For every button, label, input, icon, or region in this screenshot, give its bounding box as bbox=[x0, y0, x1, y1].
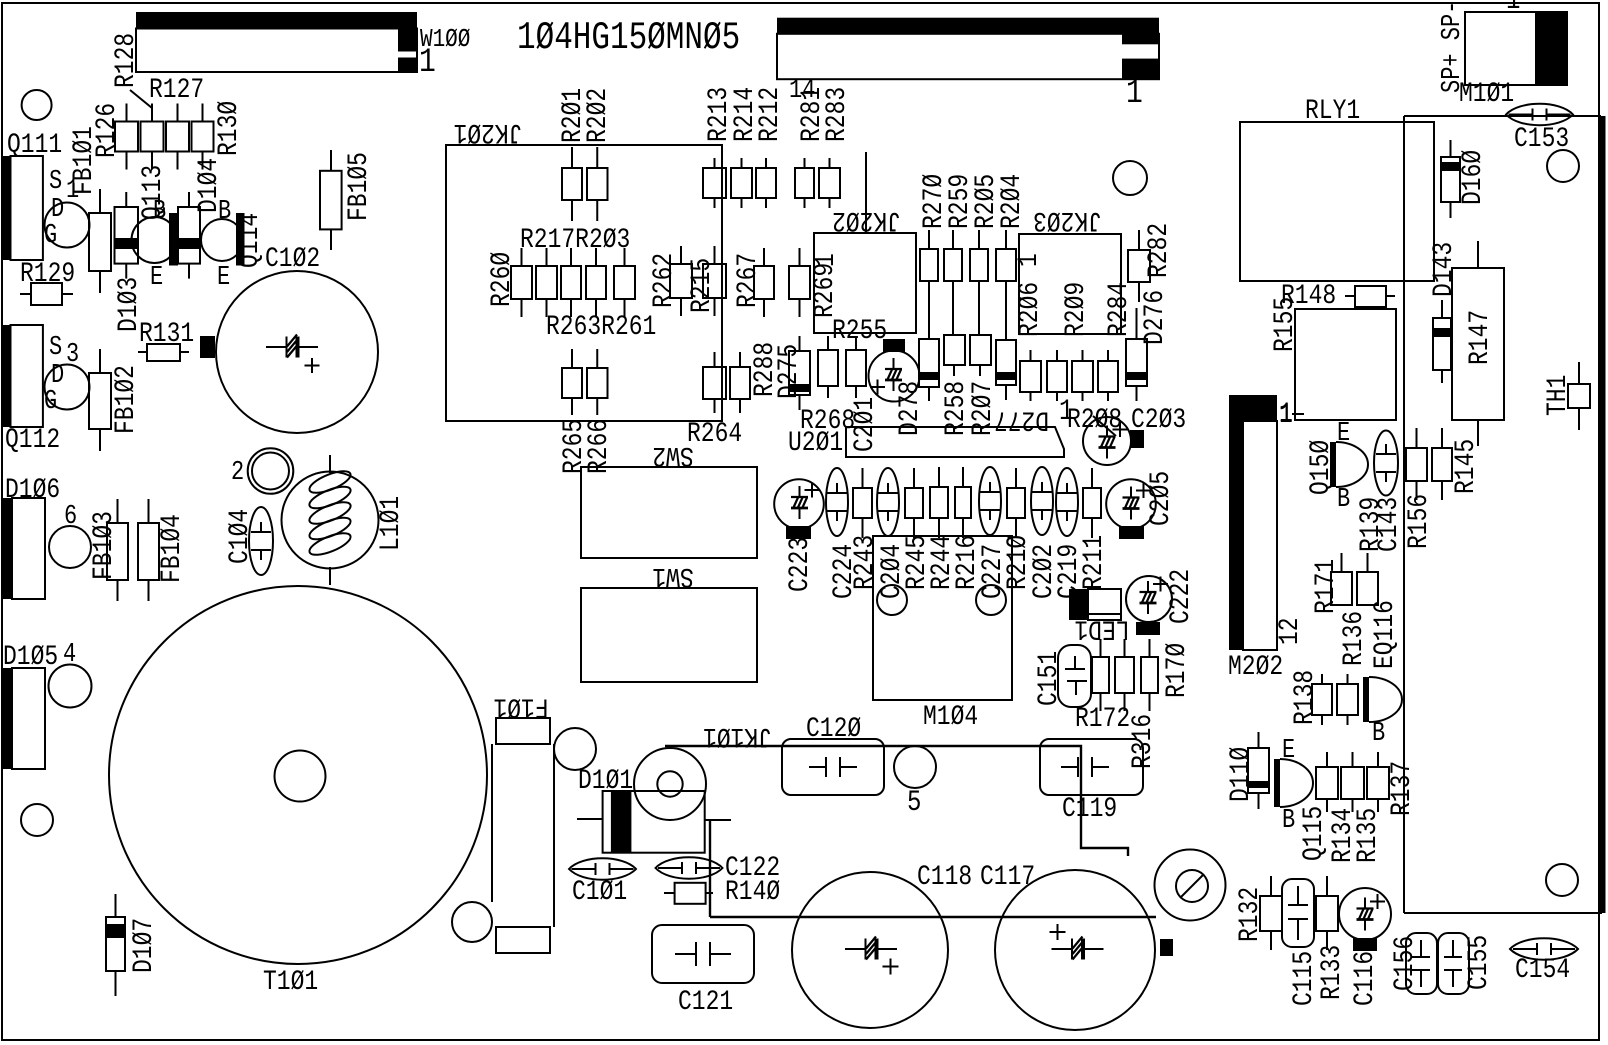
resistor R262 bbox=[670, 264, 692, 298]
svg-text:C222: C222 bbox=[1165, 569, 1197, 624]
resistor R216 bbox=[955, 487, 971, 518]
svg-text:R284: R284 bbox=[1103, 282, 1135, 337]
ferrite bead FB104 bbox=[138, 523, 159, 580]
fuse F101 bbox=[493, 691, 548, 723]
resistor R130 bbox=[192, 122, 214, 152]
svg-text:C1Ø2: C1Ø2 bbox=[265, 243, 320, 275]
svg-text:JK2Ø1: JK2Ø1 bbox=[454, 116, 523, 148]
svg-text:G: G bbox=[44, 221, 57, 251]
shield box right bbox=[1404, 115, 1601, 117]
capacitor C119 bbox=[1040, 739, 1143, 795]
resistor R245 bbox=[905, 488, 923, 518]
svg-text:D1Ø7: D1Ø7 bbox=[128, 918, 160, 973]
svg-text:R2Ø9: R2Ø9 bbox=[1060, 282, 1092, 337]
svg-text:R282: R282 bbox=[1143, 223, 1175, 278]
svg-text:C153: C153 bbox=[1514, 123, 1569, 155]
resistor R214 bbox=[731, 168, 752, 198]
svg-text:R13Ø: R13Ø bbox=[213, 101, 245, 156]
svg-text:Q15Ø: Q15Ø bbox=[1305, 440, 1337, 495]
svg-text:4: 4 bbox=[63, 640, 76, 670]
resistor bottom right b bbox=[730, 367, 750, 399]
diode D276 bbox=[1126, 339, 1147, 386]
capacitor C104 bbox=[249, 507, 273, 575]
resistor R268 box a bbox=[818, 350, 838, 386]
resistor R145 bbox=[1432, 448, 1452, 481]
fuse post circle a bbox=[554, 728, 596, 770]
svg-text:M1Ø1: M1Ø1 bbox=[1459, 78, 1514, 110]
ferrite bead FB105 bbox=[320, 171, 342, 230]
IC U201 bbox=[846, 427, 1064, 457]
resistor R147 bbox=[1452, 268, 1504, 420]
svg-text:6: 6 bbox=[64, 502, 77, 532]
svg-text:C151: C151 bbox=[1033, 651, 1065, 706]
relay RLY1 bbox=[1240, 122, 1434, 281]
connector JK201 bbox=[446, 145, 722, 421]
resistor R201 bbox=[562, 168, 582, 200]
resistor R207 bbox=[970, 335, 991, 365]
svg-text:FB1Ø4: FB1Ø4 bbox=[156, 514, 188, 583]
connector J200 top middle bbox=[777, 18, 1159, 34]
resistor row mid 3 bbox=[561, 266, 581, 299]
svg-text:R269: R269 bbox=[809, 263, 841, 318]
resistor R134 bbox=[1316, 767, 1338, 799]
wire to JK202 bbox=[865, 152, 867, 233]
ferrite bead FB102 bbox=[89, 373, 111, 429]
hole near C153 bbox=[1547, 150, 1579, 182]
svg-text:Q112: Q112 bbox=[5, 424, 60, 456]
svg-text:R17Ø: R17Ø bbox=[1161, 643, 1193, 698]
svg-text:R136: R136 bbox=[1338, 611, 1370, 666]
capacitor C115 bbox=[1282, 879, 1314, 947]
svg-text:R211: R211 bbox=[1078, 535, 1110, 590]
diode D278 bbox=[919, 339, 939, 387]
svg-text:R156: R156 bbox=[1403, 494, 1435, 549]
pin 1 mark JK203 bbox=[1013, 253, 1045, 267]
svg-text:TH1: TH1 bbox=[1542, 375, 1574, 416]
resistor R132 bbox=[1234, 887, 1266, 942]
svg-text:R171: R171 bbox=[1310, 559, 1342, 614]
resistor row mid 2 bbox=[536, 266, 557, 299]
svg-text:D276: D276 bbox=[1139, 290, 1171, 345]
resistor R265 bbox=[562, 368, 582, 398]
svg-text:R127: R127 bbox=[149, 74, 204, 106]
svg-text:C2Ø3: C2Ø3 bbox=[1131, 404, 1186, 436]
svg-text:R147: R147 bbox=[1464, 310, 1496, 365]
capacitor C204 bbox=[877, 468, 899, 536]
capacitor C151 bbox=[1058, 645, 1091, 707]
svg-text:E: E bbox=[150, 263, 163, 293]
svg-text:JK2Ø3: JK2Ø3 bbox=[1033, 204, 1102, 236]
diode D143 bbox=[1428, 242, 1460, 297]
diode D275 bbox=[789, 351, 810, 395]
resistor R171 bbox=[1331, 572, 1352, 605]
svg-text:R2Ø6: R2Ø6 bbox=[1014, 282, 1046, 337]
svg-text:R145: R145 bbox=[1450, 439, 1482, 494]
capacitor C101 bbox=[569, 858, 636, 879]
hole top-left bbox=[22, 90, 52, 120]
svg-text:C155: C155 bbox=[1463, 935, 1495, 990]
board title 104HG150MN05 bbox=[517, 16, 740, 60]
transistor Q112 pair circle bbox=[45, 365, 90, 410]
relay R155 box bbox=[1295, 309, 1396, 420]
svg-text:R138: R138 bbox=[1289, 670, 1321, 725]
svg-text:B: B bbox=[1337, 485, 1350, 515]
diode D104 bbox=[178, 207, 200, 264]
svg-text:R155: R155 bbox=[1269, 297, 1301, 352]
diode D107 bbox=[106, 917, 125, 971]
fuse post circle b bbox=[452, 902, 492, 942]
resistor R270 bbox=[920, 249, 938, 281]
svg-text:R135: R135 bbox=[1352, 808, 1384, 863]
connector M101 bbox=[1465, 12, 1567, 85]
resistor R266 bbox=[587, 368, 608, 398]
wire lower horizontal bbox=[709, 820, 711, 917]
svg-text:C117: C117 bbox=[980, 861, 1035, 893]
resistor R243 bbox=[853, 488, 872, 518]
svg-text:C2Ø5: C2Ø5 bbox=[1145, 471, 1177, 526]
resistor R137 bbox=[1367, 767, 1389, 799]
svg-text:SW1: SW1 bbox=[652, 560, 693, 592]
hole near R283 bbox=[1113, 161, 1147, 195]
svg-text:C143: C143 bbox=[1373, 497, 1405, 552]
svg-text:R26Ø: R26Ø bbox=[486, 252, 518, 307]
transistor Q113 bbox=[132, 217, 178, 263]
svg-text:C154: C154 bbox=[1515, 954, 1570, 986]
svg-text:B: B bbox=[1372, 719, 1385, 749]
resistor R126 bbox=[115, 122, 138, 152]
svg-text:EQ116: EQ116 bbox=[1369, 600, 1401, 669]
pin 1 mark JK202 bbox=[810, 253, 842, 267]
svg-text:D1Ø6: D1Ø6 bbox=[5, 474, 60, 506]
capacitor C102 bbox=[216, 271, 378, 433]
capacitor C120 bbox=[782, 739, 884, 795]
svg-text:R262: R262 bbox=[648, 253, 680, 308]
pad circle 2 bbox=[248, 448, 294, 494]
svg-text:12: 12 bbox=[1274, 617, 1306, 645]
capacitor C117 bbox=[995, 870, 1155, 1030]
svg-text:D16Ø: D16Ø bbox=[1457, 150, 1489, 205]
resistor right of R267 bbox=[789, 266, 810, 299]
resistor R204 bbox=[996, 249, 1016, 281]
svg-text:R2Ø4: R2Ø4 bbox=[996, 174, 1028, 229]
svg-text:FB1Ø5: FB1Ø5 bbox=[343, 152, 375, 221]
resistor R205 bbox=[970, 249, 988, 281]
capacitor C223 bbox=[774, 479, 824, 529]
svg-text:2: 2 bbox=[231, 458, 244, 488]
pad ring JK101 bbox=[634, 748, 706, 820]
connector M202 bbox=[1229, 395, 1277, 421]
resistor R316 box bbox=[1115, 657, 1134, 693]
svg-text:Q115: Q115 bbox=[1298, 806, 1330, 861]
resistor R128 bbox=[166, 122, 189, 152]
capacitor C116 bbox=[1339, 888, 1391, 940]
svg-text:3: 3 bbox=[66, 340, 79, 370]
resistor R213 bbox=[703, 168, 726, 198]
capacitor C121 bbox=[652, 925, 754, 983]
svg-text:1: 1 bbox=[1126, 75, 1143, 113]
svg-text:R128: R128 bbox=[110, 33, 142, 88]
resistor R283 bbox=[819, 168, 840, 198]
resistor R259 bbox=[944, 249, 962, 281]
wire top of bottom section bbox=[665, 746, 1128, 856]
resistor R281 bbox=[795, 168, 814, 198]
svg-text:R255: R255 bbox=[832, 315, 887, 347]
svg-text:U2Ø1: U2Ø1 bbox=[788, 427, 843, 459]
switch SW1 bbox=[581, 588, 757, 682]
svg-text:C116: C116 bbox=[1349, 951, 1381, 1006]
svg-text:L1Ø1: L1Ø1 bbox=[375, 496, 407, 551]
diode D103 bbox=[115, 207, 139, 264]
resistor R282 bbox=[1128, 250, 1150, 282]
inductor L101 bbox=[282, 472, 379, 569]
svg-text:C121: C121 bbox=[678, 986, 733, 1018]
svg-text:1: 1 bbox=[419, 44, 436, 82]
resistor bottom right a bbox=[703, 367, 726, 399]
ferrite bead FB101 bbox=[89, 213, 111, 271]
capacitor C143 bbox=[1374, 431, 1398, 496]
capacitor C201 bbox=[869, 351, 920, 402]
resistor R268 box b bbox=[846, 350, 866, 386]
svg-text:R2Ø2: R2Ø2 bbox=[582, 88, 614, 143]
svg-text:R14Ø: R14Ø bbox=[725, 876, 780, 908]
capacitor C154 bbox=[1510, 938, 1578, 959]
resistor R140 bbox=[675, 883, 706, 904]
svg-text:R283: R283 bbox=[821, 87, 853, 142]
resistor R260 bbox=[511, 266, 532, 299]
svg-text:R172: R172 bbox=[1075, 703, 1130, 735]
svg-text:1: 1 bbox=[1013, 253, 1045, 267]
svg-text:R217R2Ø3: R217R2Ø3 bbox=[520, 224, 630, 256]
svg-text:C118: C118 bbox=[917, 861, 972, 893]
resistor R136 box bbox=[1357, 572, 1378, 605]
capacitor C156 bbox=[1406, 933, 1437, 994]
resistor R212 bbox=[756, 168, 776, 198]
resistor below JK203 c bbox=[1072, 361, 1093, 392]
svg-text:C223: C223 bbox=[784, 537, 816, 592]
transistor Q114 bbox=[201, 219, 243, 261]
capacitor C155 bbox=[1438, 933, 1469, 994]
connector JK202 bbox=[814, 233, 916, 333]
svg-text:G: G bbox=[44, 387, 57, 417]
svg-text:T1Ø1: T1Ø1 bbox=[263, 966, 318, 998]
resistor R202 bbox=[587, 168, 608, 200]
svg-text:1Ø4HG15ØMNØ5: 1Ø4HG15ØMNØ5 bbox=[517, 16, 740, 60]
svg-text:R267: R267 bbox=[732, 253, 764, 308]
thermistor TH1 bbox=[1568, 384, 1590, 408]
capacitor C202 bbox=[1031, 467, 1053, 535]
resistor R172 box bbox=[1092, 657, 1109, 693]
resistor R258 bbox=[944, 335, 965, 365]
resistor below JK203 d bbox=[1098, 361, 1118, 392]
svg-text:M1Ø4: M1Ø4 bbox=[923, 701, 978, 733]
svg-text:B: B bbox=[1282, 806, 1295, 836]
diode D277 bbox=[996, 340, 1016, 385]
resistor below JK203 a bbox=[1020, 361, 1041, 392]
leader line R128 bbox=[130, 90, 152, 108]
hole bottom-right bbox=[1546, 864, 1578, 896]
resistor R267 bbox=[754, 266, 774, 299]
svg-text:E: E bbox=[1337, 419, 1350, 449]
svg-text:RLY1: RLY1 bbox=[1305, 95, 1360, 127]
svg-text:SW2: SW2 bbox=[652, 439, 693, 471]
diode D160 bbox=[1441, 157, 1460, 202]
transistor Q111 pair circle bbox=[45, 203, 90, 248]
resistor R135 bbox=[1341, 767, 1364, 799]
LED1 bbox=[1069, 589, 1088, 620]
capacitor C118 bbox=[792, 872, 948, 1028]
pad ring near C117 bbox=[1155, 850, 1226, 921]
svg-text:R212: R212 bbox=[754, 87, 786, 142]
resistor below JK203 b bbox=[1047, 361, 1067, 392]
svg-text:C1Ø4: C1Ø4 bbox=[224, 509, 256, 564]
capacitor C224 bbox=[826, 468, 848, 536]
ferrite bead FB103 bbox=[107, 523, 128, 580]
svg-text:C12Ø: C12Ø bbox=[806, 713, 861, 745]
svg-text:M2Ø2: M2Ø2 bbox=[1228, 651, 1283, 683]
resistor row mid 4 bbox=[586, 266, 606, 299]
svg-text:R129: R129 bbox=[20, 258, 75, 290]
svg-text:D143: D143 bbox=[1428, 242, 1460, 297]
capacitor C205 bbox=[1106, 479, 1156, 529]
svg-text:R215: R215 bbox=[686, 258, 718, 313]
switch SW2 bbox=[581, 467, 757, 558]
svg-text:R266: R266 bbox=[583, 419, 615, 474]
capacitor C227 bbox=[979, 467, 1001, 535]
svg-text:5: 5 bbox=[907, 787, 921, 820]
resistor R244 bbox=[930, 487, 948, 518]
svg-text:R263R261: R263R261 bbox=[546, 311, 656, 343]
svg-text:Q114: Q114 bbox=[234, 213, 266, 268]
transformer T101 bbox=[109, 586, 487, 964]
connector W100 bbox=[136, 12, 417, 29]
svg-text:C119: C119 bbox=[1062, 793, 1117, 825]
svg-text:JK1Ø1: JK1Ø1 bbox=[703, 720, 772, 752]
module M104 bbox=[873, 536, 1012, 700]
resistor R211 bbox=[1083, 488, 1101, 518]
svg-text:B: B bbox=[153, 197, 166, 227]
svg-text:R133: R133 bbox=[1316, 945, 1348, 1000]
svg-text:1: 1 bbox=[1279, 398, 1293, 430]
resistor R215 bbox=[703, 264, 726, 298]
svg-text:FB1Ø3: FB1Ø3 bbox=[88, 511, 120, 580]
connector JK203 bbox=[1019, 234, 1121, 334]
diode D110 bbox=[1225, 747, 1257, 802]
svg-text:E: E bbox=[217, 263, 230, 293]
resistor R288 bbox=[749, 342, 781, 397]
resistor R127 bbox=[141, 122, 164, 152]
capacitor C153 bbox=[1506, 104, 1573, 125]
svg-text:C115: C115 bbox=[1288, 951, 1320, 1006]
pad circle 5 bbox=[894, 746, 936, 788]
resistor R138 boxes bbox=[1289, 670, 1321, 725]
pad circle 4 bbox=[49, 665, 92, 708]
svg-text:C156: C156 bbox=[1389, 936, 1421, 991]
svg-text:B: B bbox=[218, 197, 231, 227]
resistor R210 bbox=[1007, 488, 1025, 518]
capacitor C203 bbox=[1083, 417, 1131, 465]
transistor EQ116 bbox=[1363, 677, 1369, 722]
capacitor C219 bbox=[1056, 468, 1078, 536]
pad circle 6 bbox=[49, 526, 91, 568]
svg-text:S: S bbox=[49, 333, 62, 363]
svg-text:FB1Ø2: FB1Ø2 bbox=[110, 365, 142, 434]
svg-text:D275: D275 bbox=[773, 344, 805, 399]
svg-text:D277: D277 bbox=[994, 404, 1049, 436]
svg-text:FB1Ø1: FB1Ø1 bbox=[68, 126, 100, 195]
resistor R133 bbox=[1316, 896, 1338, 931]
capacitor C222 bbox=[1126, 576, 1172, 622]
svg-text:C1Ø1: C1Ø1 bbox=[572, 876, 627, 908]
transistor Q150 bbox=[1330, 442, 1336, 487]
resistor R156 bbox=[1406, 448, 1427, 481]
svg-text:1: 1 bbox=[1506, 0, 1520, 18]
svg-text:R264: R264 bbox=[687, 418, 742, 450]
svg-text:LED1: LED1 bbox=[1074, 613, 1129, 645]
capacitor C122 bbox=[656, 857, 723, 878]
resistor row mid 5 bbox=[614, 266, 635, 299]
svg-text:R137: R137 bbox=[1386, 761, 1418, 816]
hole bottom-left bbox=[21, 804, 53, 836]
resistor R170 box bbox=[1141, 657, 1158, 693]
svg-text:S: S bbox=[49, 167, 62, 197]
